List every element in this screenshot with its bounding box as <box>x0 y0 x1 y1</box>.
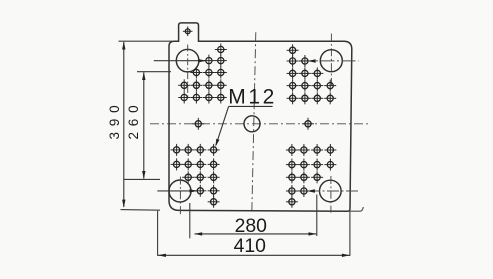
top-left tie-bar centerline horizontal with arrow to hole <box>154 59 206 62</box>
top-left tie-bar centerline vertical <box>187 45 189 98</box>
main vertical centerline <box>252 32 256 213</box>
dim 280 extension right <box>316 195 318 237</box>
mid hole right on centerline <box>302 118 314 130</box>
dim 260 extension top <box>137 71 171 73</box>
dim 390 line <box>122 42 125 208</box>
M12 tapped hole cluster TL <box>178 44 227 104</box>
bottom edge overshoot hook <box>350 207 363 211</box>
center locating hole <box>244 116 260 132</box>
mid hole left on centerline <box>192 118 204 130</box>
dim 390 extension bottom <box>121 209 161 212</box>
bottom-right tie-bar centerline vertical <box>330 176 332 213</box>
svg-text:390: 390 <box>107 100 122 140</box>
M12 leader line <box>215 106 272 146</box>
dim 390 extension top <box>119 40 173 42</box>
svg-text:280: 280 <box>235 215 268 237</box>
M12 tapped hole cluster BL <box>171 144 220 208</box>
tie-bar hole bottom-right <box>320 180 342 202</box>
svg-text:260: 260 <box>126 100 141 140</box>
M12 tapped hole cluster BR <box>286 144 337 208</box>
bottom-left tie-bar centerline horizontal with arrow to hole <box>157 189 197 192</box>
bottom-left tie-bar centerline vertical <box>179 177 181 215</box>
tie-bar hole top-left <box>176 49 199 72</box>
main horizontal centerline <box>150 123 369 125</box>
dim 410 extension right <box>349 211 351 256</box>
tie-bar hole top-right <box>320 50 342 72</box>
dim 260 line <box>142 72 145 179</box>
dim 280 extension left <box>189 203 191 238</box>
locating tab hole <box>183 27 193 37</box>
M12 tapped hole cluster TR <box>287 44 337 104</box>
dim 260 extension bottom <box>124 178 160 180</box>
platen outline <box>169 23 352 211</box>
svg-text:410: 410 <box>234 235 267 257</box>
svg-text:M12: M12 <box>228 86 277 109</box>
dim 410 extension left <box>157 211 159 256</box>
bottom-right tie-bar centerline horizontal with arrow to hole <box>307 189 359 192</box>
tie-bar hole bottom-left <box>169 180 191 202</box>
dim 410 line <box>158 254 350 257</box>
top-right tie-bar centerline horizontal with arrow to hole <box>300 59 359 62</box>
dim 280 line <box>194 232 316 235</box>
top-right tie-bar centerline vertical <box>330 34 332 87</box>
